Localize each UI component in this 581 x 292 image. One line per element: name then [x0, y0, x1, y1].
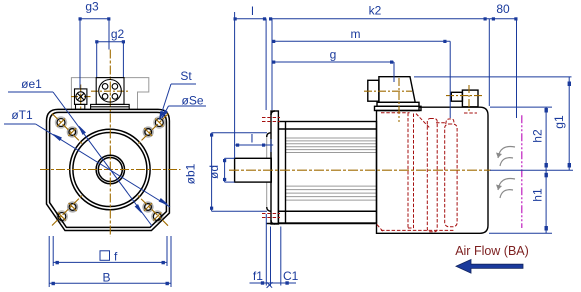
- svg-text:Air Flow (BA): Air Flow (BA): [455, 244, 529, 258]
- svg-text:h2: h2: [531, 129, 545, 143]
- svg-text:C1: C1: [283, 269, 299, 283]
- svg-text:g2: g2: [111, 27, 125, 41]
- svg-text:l: l: [251, 4, 254, 18]
- svg-text:øT1: øT1: [11, 108, 33, 122]
- svg-text:m: m: [351, 27, 361, 41]
- svg-text:g1: g1: [552, 115, 566, 129]
- svg-text:ød: ød: [207, 165, 221, 179]
- svg-text:B: B: [102, 271, 110, 285]
- svg-text:øe1: øe1: [21, 77, 42, 91]
- svg-text:h1: h1: [531, 188, 545, 202]
- svg-text:øSe: øSe: [181, 94, 203, 108]
- svg-text:k2: k2: [369, 4, 382, 18]
- svg-text:g3: g3: [85, 0, 99, 14]
- svg-text:l: l: [251, 132, 254, 146]
- svg-text:f1: f1: [253, 269, 263, 283]
- svg-text:St: St: [180, 69, 192, 83]
- svg-text:80: 80: [496, 2, 510, 16]
- svg-text:g: g: [330, 48, 337, 62]
- svg-text:øb1: øb1: [184, 163, 198, 184]
